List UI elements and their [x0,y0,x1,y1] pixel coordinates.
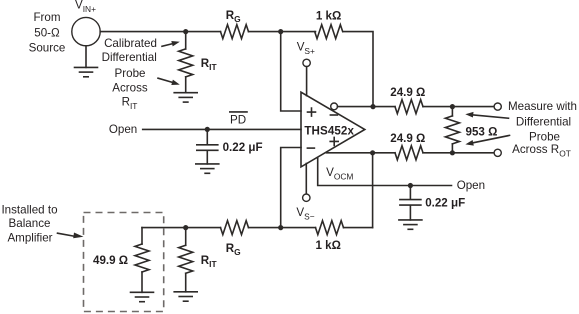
svg-text:Differential: Differential [516,116,571,129]
wire VOCM [318,157,452,185]
wire +out rail [327,152,396,154]
pin +out mark [330,137,338,145]
resistor 24.9 Ω (top) [395,100,423,114]
svg-text:Calibrated: Calibrated [104,37,157,50]
label 49.9 Ω [93,254,128,267]
svg-text:Probe: Probe [115,67,146,80]
svg-text:Differential: Differential [102,51,157,64]
dashed box installed to balance [84,213,164,312]
resistor 1 kΩ (bottom) [316,221,344,235]
label Open (left) [109,123,137,136]
ground under source [75,67,98,76]
bubble -out [331,103,338,110]
svg-text:Open: Open [109,123,137,136]
terminal VS- [303,194,310,201]
terminal VS+ [303,59,310,66]
arrow calibrated bottom [158,78,180,85]
label From 50-Ω Source [29,11,66,55]
wire RG to 1k top [249,31,316,33]
svg-text:24.9 Ω: 24.9 Ω [390,132,425,145]
svg-text:49.9 Ω: 49.9 Ω [93,254,128,267]
pin +in mark [308,108,316,116]
svg-text:0.22 μF: 0.22 μF [223,141,263,154]
resistor 24.9 Ω (bottom) [395,146,423,160]
arrow to ROT bottom [465,135,509,145]
node VOCM cap junction [408,183,413,188]
resistor RIT (bottom) [179,228,193,292]
wire 1k top to output node [344,32,374,107]
wire feedback bottom vertical [372,153,374,228]
svg-text:Amplifier: Amplifier [7,231,52,244]
arrow to dashed box [58,233,84,239]
arrow to ROT top [465,112,508,118]
label 0.22 µF (right) [425,197,465,210]
terminal measure bottom [494,149,501,156]
pin -out mark [330,114,337,116]
wire VS- to amp [305,164,307,194]
svg-text:Installed to: Installed to [1,203,57,216]
label VOCM [326,166,353,182]
wire top out to terminal [423,106,494,108]
svg-text:24.9 Ω: 24.9 Ω [390,86,425,99]
label 24.9 Ω (top) [390,86,425,99]
node PD cap junction [205,127,210,132]
svg-text:From: From [33,11,60,24]
wire VS+ to amp [306,67,308,96]
svg-text:1 kΩ: 1 kΩ [315,239,340,252]
wire RIT top stem [185,32,187,93]
label VS+ [297,41,315,57]
svg-text:Probe: Probe [529,130,560,143]
terminal measure top [494,103,501,110]
label 1 kΩ (bottom) [315,239,340,252]
label RG (top) [226,9,241,24]
arrow calibrated top [162,41,180,46]
resistor 49.9 Ω [135,228,149,293]
op-amp THS452x [301,92,365,167]
node -out feedback junction [370,104,375,109]
node ROT top junction [450,104,455,109]
wire PD rail [143,128,301,130]
resistor 953 Ω [445,107,459,153]
node ROT bottom junction [450,150,455,155]
wire -out rail [338,106,396,108]
wire top rail [100,31,220,33]
wire +input [281,32,301,111]
label Open (right) [457,179,485,192]
svg-text:Open: Open [457,179,485,192]
resistor 1 kΩ (top) [315,25,343,39]
resistor RG (top) [221,25,249,39]
capacitor 0.22 µF (left) [197,129,218,164]
label 953 Ω [466,125,498,138]
resistor RG (bottom) [221,221,249,235]
wire bottom out to terminal [423,152,494,154]
wire bottom rail [142,227,373,229]
ground under RIT top [174,93,197,102]
svg-text:Source: Source [29,41,66,54]
label VIN+ [75,0,96,14]
capacitor 0.22 µF (right) [400,186,421,220]
node top input junction [183,29,188,34]
label Calibrated Differential Probe Across RIT [102,37,157,111]
node bottom RIT junction [183,225,188,230]
svg-text:PD: PD [230,114,246,127]
svg-text:THS452x: THS452x [304,125,354,138]
resistor RIT (top) [179,49,193,77]
svg-text:1 kΩ: 1 kΩ [316,10,341,23]
label RIT (bottom) [201,254,218,269]
svg-text:0.22 μF: 0.22 μF [425,197,465,210]
svg-text:953 Ω: 953 Ω [466,125,498,138]
label Measure with Differential Probe Across ROT [508,100,577,159]
label PD [230,112,247,127]
svg-text:50-Ω: 50-Ω [34,27,60,40]
svg-text:Measure with: Measure with [508,100,577,113]
node +input junction [278,29,283,34]
label 0.22 µF (left) [223,141,263,154]
ground under 49.9 [131,292,154,301]
ground under left cap [196,164,219,173]
label RIT (top) [201,57,218,72]
wire source to ground [85,46,87,68]
svg-text:Across: Across [112,82,148,95]
label 24.9 Ω (bottom) [390,132,425,145]
label VS- [296,206,314,222]
svg-text:Balance: Balance [9,217,51,230]
label THS452x [304,125,354,138]
label 1 kΩ (top) [316,10,341,23]
pin -in mark [307,147,314,149]
ground under right cap [399,220,422,229]
label RG (bottom) [226,242,241,257]
node -input junction [278,225,283,230]
source VIN+ [72,17,100,45]
label Installed to Balance Amplifier [1,203,57,244]
node +out feedback junction [370,150,375,155]
ground under RIT bottom [174,292,197,301]
wire -input [281,148,301,228]
